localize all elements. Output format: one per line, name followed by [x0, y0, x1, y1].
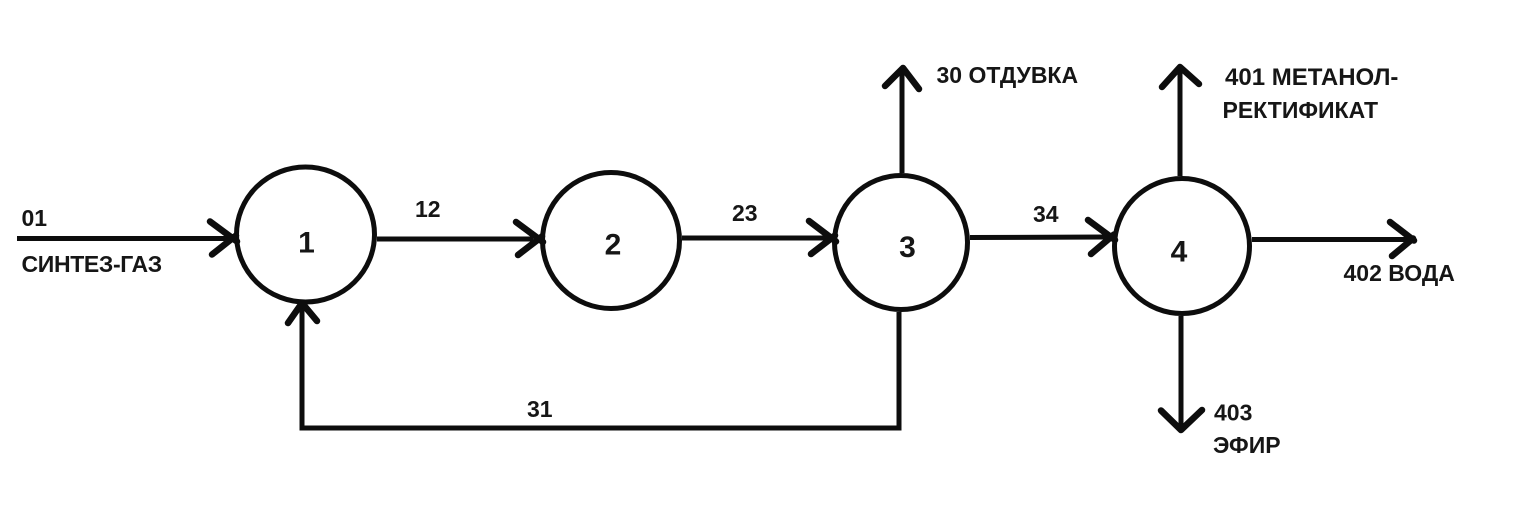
svg-text:01: 01 [22, 205, 48, 231]
svg-text:РЕКТИФИКАТ: РЕКТИФИКАТ [1223, 97, 1379, 123]
svg-text:30 ОТДУВКА: 30 ОТДУВКА [937, 62, 1079, 88]
svg-text:ЭФИР: ЭФИР [1213, 432, 1281, 458]
svg-text:402 ВОДА: 402 ВОДА [1344, 260, 1455, 286]
svg-text:3: 3 [899, 231, 916, 264]
svg-text:СИНТЕЗ-ГАЗ: СИНТЕЗ-ГАЗ [22, 251, 162, 277]
svg-text:31: 31 [527, 396, 553, 422]
svg-text:4: 4 [1171, 236, 1188, 269]
svg-text:403: 403 [1214, 400, 1252, 426]
svg-text:2: 2 [605, 229, 622, 262]
svg-text:1: 1 [298, 227, 315, 260]
svg-text:401 МЕТАНОЛ-: 401 МЕТАНОЛ- [1225, 64, 1398, 91]
svg-text:34: 34 [1033, 201, 1059, 227]
svg-text:23: 23 [732, 200, 758, 226]
svg-text:12: 12 [415, 196, 441, 222]
